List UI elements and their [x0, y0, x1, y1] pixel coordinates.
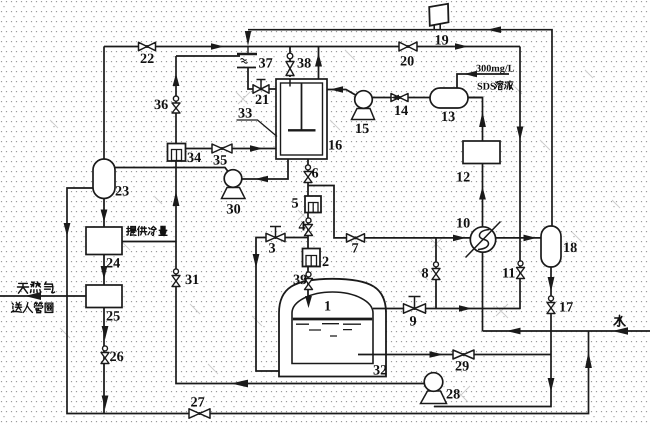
svg-text:9: 9: [410, 314, 417, 330]
flow arrow up into cooler 12: [479, 187, 486, 200]
flow arrow left toward pump 15: [391, 95, 399, 101]
wire: valve 3 branch down to tank 32 bottom: [256, 238, 308, 372]
condenser 23 (vertical drum): [93, 159, 115, 199]
svg-text:4: 4: [299, 219, 306, 235]
flow arrow up below filter 34: [173, 191, 180, 206]
flow arrow down below heater 25: [102, 326, 109, 340]
svg-text:2: 2: [322, 254, 329, 270]
svg-text:36: 36: [154, 97, 168, 113]
flow arrow right on top header after valve 22: [211, 43, 224, 50]
flow arrow left on water line at inlet: [613, 327, 629, 335]
filter 34: [168, 144, 186, 162]
flow arrow left on water line near exchanger: [507, 328, 521, 335]
pump 30: [222, 170, 246, 199]
wire: bypass from above box 5 to valve 7 and exchanger 10: [308, 186, 470, 238]
wire: blower 19 line to right corner and down to separator 18: [248, 30, 552, 226]
svg-text:37: 37: [259, 56, 273, 72]
wire: tank 1 outlet through valve 9 to risers: [373, 308, 521, 310]
flow arrow up on right bottom riser: [585, 352, 592, 369]
wire: blower 19 stem: [434, 24, 440, 30]
wire: filter 34 through valve 35 into vessel 16: [186, 148, 277, 150]
svg-text:29: 29: [455, 359, 469, 375]
valve 20: [399, 42, 417, 51]
svg-text:14: 14: [394, 103, 408, 119]
flow arrow up into drum 13: [479, 112, 486, 128]
flow arrow down on left return loop: [64, 223, 71, 237]
wire: exchanger 10 outlet into separator 18: [496, 237, 541, 239]
wire: separator 18 down through valve 17 to bottom run under pump 28: [434, 267, 551, 407]
valve 31: [172, 269, 180, 287]
flow arrow down below water line on riser 17: [548, 378, 555, 392]
wire: water inlet line: [483, 330, 650, 332]
wire: exchanger 10 vertical line up to drum 13: [468, 98, 483, 332]
cooler 12: [463, 141, 500, 164]
wire: drum 13 through valve 14 to pump 15: [373, 97, 431, 99]
tank 1 liquid surface dashes: [296, 324, 361, 336]
flow arrow left into vessel 16 from pump 15: [330, 86, 343, 93]
valve 8: [432, 262, 440, 280]
wire: SDS solution feed into drum 13: [457, 74, 509, 88]
valve 6: [304, 165, 312, 183]
svg-text:22: 22: [140, 51, 154, 67]
svg-text:17: 17: [559, 300, 573, 316]
drum 13 (horizontal): [430, 88, 468, 108]
flow arrow left on pump-28 suction run: [231, 380, 248, 388]
wire: vessel 16 bottom to pump 30 suction: [243, 159, 289, 179]
wire: stub from header into seal pot 37: [247, 47, 249, 54]
valve 22: [139, 42, 156, 50]
arrester 5: [305, 196, 321, 213]
pump 15: [352, 91, 375, 120]
valve 35: [212, 144, 232, 153]
flow arrow down from condenser 23 to heater 24: [101, 210, 108, 223]
flow arrow left on natural gas send-out line: [25, 292, 41, 300]
flow arrow down below valve 26: [102, 396, 109, 410]
svg-text:38: 38: [297, 56, 311, 72]
seal pot 37 (plates and liquid mark): [237, 54, 257, 68]
svg-text:20: 20: [400, 54, 414, 70]
vessel 16 dip pipe from valve 38: [289, 79, 291, 87]
valve 3 (globe with handle): [266, 227, 285, 242]
valve 38: [286, 53, 294, 75]
wire: seal pot 37 down through valve 21 into vessel 16: [248, 68, 276, 90]
vessel 16 (jacketed reactor): [276, 79, 327, 159]
svg-text:8: 8: [422, 266, 429, 282]
flow arrow right into separator 18: [524, 235, 537, 242]
callout 33 with leader line: [237, 106, 278, 137]
wire: top header from left corner to valve-20 corner: [104, 46, 520, 48]
tank 1 liquid level line: [293, 318, 372, 321]
svg-text:35: 35: [213, 153, 227, 169]
svg-text:13: 13: [441, 109, 455, 125]
flow arrow down from heater 24 to heater 25: [101, 266, 108, 280]
wire: natural gas send-out line: [0, 295, 86, 297]
svg-text:1: 1: [324, 299, 331, 315]
flow arrow down on valve 3 branch: [253, 254, 260, 268]
flow arrow right after valve 35: [250, 145, 263, 152]
svg-text:6: 6: [312, 166, 319, 182]
wire: valve 36 / filter 34 / valve 31 line down to pump-28 suction run: [176, 56, 424, 384]
svg-text:16: 16: [328, 138, 342, 154]
wire: drum 13 to riser: [468, 97, 483, 99]
svg-text:30: 30: [227, 202, 241, 218]
valve 36: [172, 96, 180, 113]
text 送入管网 (send into pipe network): [11, 302, 52, 312]
svg-text:19: 19: [435, 33, 449, 49]
svg-text:23: 23: [115, 184, 129, 200]
wire: heater 24 to heater 25: [103, 255, 105, 286]
svg-text:39: 39: [293, 272, 307, 288]
flow arrow left toward pump 30: [255, 176, 268, 183]
valve 9 (globe with handle): [404, 297, 426, 314]
heater 25: [86, 285, 122, 308]
svg-text:11: 11: [502, 266, 515, 282]
wire: right drop from valve 20 down to valve-9 line: [519, 47, 521, 310]
valve 14: [391, 94, 408, 102]
arrester 2: [303, 249, 321, 267]
wire: condenser 23 to pump 30 discharge line: [115, 168, 229, 173]
svg-text:10: 10: [456, 216, 470, 232]
valve 11: [517, 261, 525, 279]
ARROWS_END: [106, 33, 577, 411]
valve 29: [453, 350, 474, 359]
svg-text:21: 21: [255, 92, 269, 108]
wire: valve 8 branch: [435, 238, 437, 309]
text 提供冷量 (provides cold): [127, 226, 167, 235]
valve 39: [305, 272, 313, 290]
svg-text:27: 27: [191, 395, 205, 411]
blower 19: [429, 4, 448, 26]
text 水 (water): [614, 315, 625, 326]
flow arrow left on SDS feed line: [464, 71, 477, 78]
svg-text:31: 31: [185, 272, 199, 288]
svg-text:25: 25: [106, 309, 120, 325]
svg-text:18: 18: [563, 240, 577, 256]
wire: tank 1 liquid outlet through valve 29: [358, 354, 551, 356]
svg-text:15: 15: [355, 121, 369, 137]
flow arrow right before valve 29: [430, 351, 444, 358]
wire: valve 38 branch from header into vessel 16: [289, 47, 291, 78]
wire: stub from valve-36 corner to seal pot 37: [176, 55, 240, 57]
wire: left return loop from condenser 23 to bottom run and up right riser: [67, 188, 589, 414]
flow arrow left on blower 19 line: [487, 26, 501, 33]
valve 21 (globe with handle): [253, 80, 269, 94]
tank 32 (outer shell): [279, 279, 386, 377]
flow arrow up above valve 36: [173, 74, 180, 87]
svg-text:28: 28: [446, 387, 460, 403]
vessel 16 agitator: [288, 83, 316, 130]
valve 7: [347, 234, 365, 242]
heater 24: [86, 227, 122, 255]
wire: heater 25 down through valve 26 to bottom run: [103, 308, 105, 414]
svg-text:24: 24: [106, 256, 120, 272]
svg-text:26: 26: [110, 349, 124, 365]
vessel 1 (inner tank with dome): [292, 292, 373, 364]
svg-text:5: 5: [292, 196, 299, 212]
flow arrow up on vent riser of vessel 16: [315, 53, 322, 67]
wire: vessel 16 bottom chain through valves 6,5,4,2,39 into tank 1: [307, 159, 309, 296]
flow arrow right after valve 9: [459, 305, 472, 312]
flow arrow right into exchanger 10: [453, 235, 466, 242]
text 天然气 (natural gas): [17, 282, 54, 293]
svg-text:32: 32: [373, 363, 387, 379]
svg-text:34: 34: [187, 150, 201, 166]
pump 28: [421, 373, 447, 404]
svg-text:33: 33: [238, 106, 252, 122]
separator 18 (vertical drum): [541, 226, 561, 267]
heat exchanger 10: [466, 222, 501, 258]
wire: pump 15 discharge into vessel 16: [327, 90, 356, 96]
flow arrow down from separator 18: [548, 277, 555, 292]
flow arrow down from valve 39 into tank 1: [305, 296, 312, 308]
text 溶液 (solution): [495, 81, 513, 90]
svg-text:SDS: SDS: [477, 82, 496, 93]
wire: left drop from header to condenser 23: [103, 47, 105, 160]
svg-text:3: 3: [269, 241, 276, 257]
wire: vent riser from vessel 16 top to header: [318, 47, 320, 80]
flow arrow right on top header after valve 20: [455, 43, 468, 50]
wire: heater 24 cold-supply line to valve-31 riser: [122, 241, 176, 243]
svg-text:300mg/L: 300mg/L: [476, 64, 515, 75]
wire: condenser 23 to heater 24: [103, 199, 105, 228]
svg-text:7: 7: [352, 241, 359, 257]
flow arrow down on valve-20 drop line: [517, 127, 524, 141]
valve 4: [305, 218, 313, 236]
valve 26: [101, 346, 109, 364]
valve 27: [189, 409, 210, 418]
flow arrow down into seal pot 37: [245, 31, 251, 46]
svg-text:12: 12: [456, 170, 470, 186]
valve 17: [547, 296, 555, 314]
